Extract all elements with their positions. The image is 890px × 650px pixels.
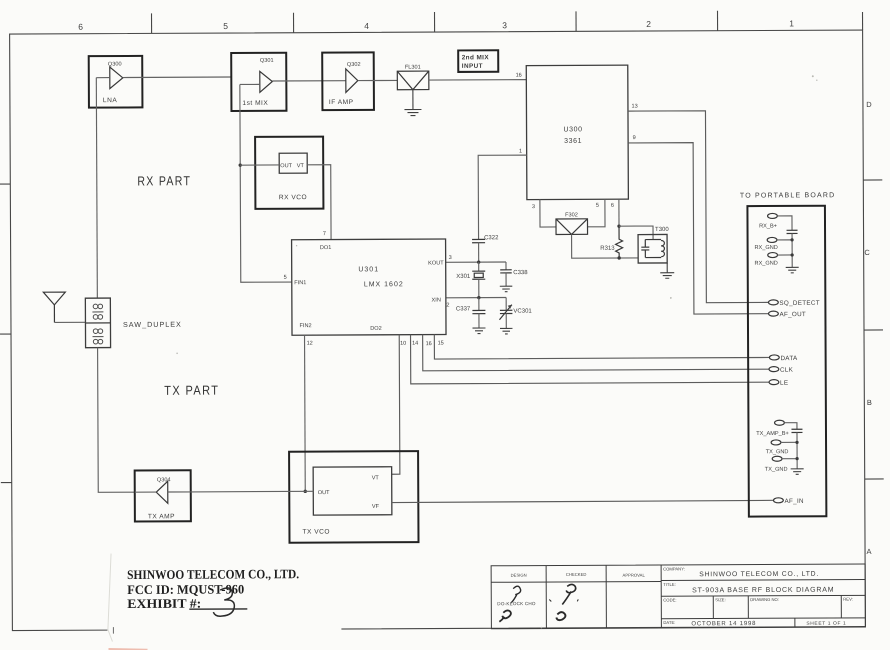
- pin SQ_DETECT: [768, 300, 819, 307]
- svg-text:DATA: DATA: [780, 355, 798, 362]
- svg-text:VT: VT: [297, 163, 305, 169]
- pin 12 wire U301 FIN2 down to TX VCO OUT node: [303, 335, 314, 493]
- variable capacitor VC301: [499, 297, 532, 328]
- svg-text:OUT: OUT: [280, 163, 292, 169]
- svg-text:DATE:: DATE:: [663, 620, 675, 625]
- svg-text:DO2: DO2: [370, 326, 382, 332]
- svg-text:15: 15: [438, 341, 444, 347]
- svg-text:R313: R313: [600, 246, 615, 252]
- svg-text:16: 16: [516, 73, 522, 79]
- svg-text:6: 6: [78, 22, 83, 32]
- svg-text:Q301: Q301: [260, 58, 274, 64]
- small pink scan mark: [108, 649, 147, 650]
- svg-text:5: 5: [284, 275, 287, 281]
- pin 16 wire U301 to CLK: [423, 333, 769, 371]
- svg-text:9: 9: [633, 135, 636, 141]
- wire IF AMP output to FL301: [358, 79, 397, 81]
- svg-text:AF_IN: AF_IN: [784, 498, 804, 505]
- svg-text:TX PART: TX PART: [164, 383, 219, 398]
- svg-text:VT: VT: [372, 475, 380, 481]
- svg-text:IF AMP: IF AMP: [329, 99, 354, 106]
- svg-text:1: 1: [789, 18, 794, 28]
- filter SAW_DUPLEX: [85, 298, 110, 348]
- svg-text:C338: C338: [513, 270, 528, 276]
- svg-text:B: B: [867, 398, 872, 407]
- pin TX_GND: [766, 440, 799, 455]
- svg-text:4: 4: [364, 21, 369, 31]
- scan speckles: [175, 75, 820, 630]
- wire TX VCO OUT to TX AMP: [191, 490, 313, 493]
- svg-text:APPROVAL: APPROVAL: [623, 573, 646, 578]
- svg-text:CLK: CLK: [780, 367, 794, 374]
- svg-text:TITLE:: TITLE:: [663, 582, 676, 587]
- wire U300 pin 3 to F302: [532, 199, 556, 227]
- svg-text:3: 3: [449, 255, 452, 261]
- svg-text:SHINWOO TELECOM CO., LTD.: SHINWOO TELECOM CO., LTD.: [699, 571, 819, 579]
- filter F302: [556, 212, 588, 234]
- amplifier Q300 LNA: [89, 56, 143, 108]
- svg-text:13: 13: [631, 104, 637, 110]
- wire antenna to duplexer: [54, 321, 85, 323]
- svg-text:2: 2: [446, 302, 449, 308]
- svg-text:5: 5: [596, 203, 599, 209]
- svg-text:SIZE:: SIZE:: [715, 597, 726, 602]
- signature DO-KEOCK CHO: [497, 586, 536, 622]
- svg-text:DRAWING NO:: DRAWING NO:: [750, 597, 779, 602]
- resonator T300: [638, 227, 670, 263]
- svg-text:TX_GND: TX_GND: [766, 449, 789, 455]
- svg-text:XIN: XIN: [432, 298, 441, 304]
- svg-text:D: D: [866, 100, 872, 109]
- wire FL301 to U300 pin 16: [429, 79, 526, 81]
- svg-text:DO-KEOCK CHO: DO-KEOCK CHO: [497, 601, 536, 606]
- svg-text:12: 12: [307, 341, 313, 347]
- wire 1st MIX LO input from RX VCO down to U301 FIN1 pin 5: [240, 84, 292, 282]
- wire TX VCO VF to AF_IN: [392, 500, 774, 502]
- svg-text:1: 1: [519, 149, 522, 155]
- svg-text:OUT: OUT: [318, 490, 330, 496]
- svg-text:COMPANY:: COMPANY:: [663, 566, 685, 571]
- capacitor at TX_AMP_B+: [791, 429, 802, 468]
- svg-text:FIN2: FIN2: [299, 323, 311, 329]
- frame left ticks: [0, 184, 12, 483]
- svg-text:FCC ID: MQUST-960: FCC ID: MQUST-960: [127, 581, 244, 597]
- svg-text:SHINWOO TELECOM CO., LTD.: SHINWOO TELECOM CO., LTD.: [127, 566, 299, 582]
- pin TX_GND: [765, 456, 799, 473]
- wire U300 pin 9 to AF_OUT: [628, 134, 769, 314]
- svg-text:RX_GND: RX_GND: [754, 245, 777, 251]
- pin 10 wire U301 to TX VCO VT: [391, 335, 407, 475]
- svg-text:X301: X301: [456, 274, 471, 280]
- FCC exhibit paste-over label: [107, 551, 341, 642]
- svg-text:CHECKED: CHECKED: [566, 572, 587, 577]
- node 2nd MIX INPUT callout: [458, 50, 498, 72]
- signature checked: [549, 584, 578, 620]
- wire U301 pin2 XIN line: [446, 296, 506, 309]
- pin RX_GND: [754, 237, 793, 251]
- svg-text:AF_OUT: AF_OUT: [779, 311, 806, 318]
- crystal X301: [456, 262, 485, 298]
- mixer Q301 1st MIX: [231, 53, 286, 111]
- svg-text:6: 6: [611, 203, 614, 209]
- ground below VC301: [500, 328, 513, 334]
- capacitor C337: [456, 298, 486, 328]
- svg-text:7: 7: [323, 231, 326, 237]
- svg-text:16: 16: [426, 341, 432, 347]
- amplifier Q302 IF AMP: [322, 52, 374, 110]
- pin RX_B+: [759, 213, 792, 230]
- svg-text:RX_B+: RX_B+: [759, 223, 777, 229]
- svg-text:DO1: DO1: [320, 245, 332, 251]
- svg-text:DESIGN: DESIGN: [511, 573, 527, 578]
- svg-text:U300: U300: [563, 126, 582, 133]
- wire 1st MIX output to IF AMP: [272, 80, 345, 82]
- wire U300 pin 13 to SQ_DETECT: [628, 103, 769, 303]
- svg-text:VF: VF: [372, 504, 380, 510]
- oscillator TX VCO: [289, 451, 418, 543]
- node junction at RX VCO out: [239, 163, 242, 166]
- title block field labels: [663, 566, 853, 625]
- svg-text:1st MIX: 1st MIX: [242, 100, 268, 107]
- antenna: [43, 292, 65, 322]
- wire U300 pin 5 to F302: [587, 199, 605, 227]
- title block table: [491, 564, 865, 629]
- ground in RX pin group: [786, 267, 799, 273]
- pin AF_OUT: [769, 311, 807, 318]
- wire RX VCO OUT to mixer LO node: [240, 164, 279, 166]
- connector J300 TO PORTABLE BOARD: [740, 192, 837, 516]
- svg-text:Q304: Q304: [157, 477, 171, 483]
- svg-text:14: 14: [412, 341, 418, 347]
- svg-text:C: C: [864, 248, 870, 257]
- svg-text:3: 3: [532, 204, 535, 210]
- frame top ticks: [152, 11, 718, 34]
- ground below C338: [500, 286, 513, 292]
- svg-text:10: 10: [400, 341, 406, 347]
- svg-text:TX VCO: TX VCO: [302, 529, 330, 536]
- svg-text:TX_GND: TX_GND: [765, 467, 788, 473]
- svg-text:SQ_DETECT: SQ_DETECT: [779, 300, 820, 307]
- svg-text:F302: F302: [565, 212, 578, 218]
- capacitor C338: [500, 262, 528, 286]
- svg-text:TX_AMP_B+: TX_AMP_B+: [756, 431, 789, 437]
- svg-text:RX VCO: RX VCO: [279, 194, 307, 201]
- svg-text:3: 3: [502, 20, 507, 30]
- wire LNA output to 1st MIX: [123, 76, 231, 79]
- filter FL301: [397, 65, 429, 90]
- svg-text:5: 5: [223, 21, 228, 31]
- svg-text:2: 2: [646, 19, 651, 29]
- svg-text:2nd MIX: 2nd MIX: [462, 54, 490, 61]
- svg-text:REV:: REV:: [843, 597, 853, 602]
- ground below C337: [472, 328, 485, 334]
- wire U300 pin 6 down: [611, 199, 621, 228]
- svg-text:LNA: LNA: [103, 97, 117, 104]
- svg-text:LE: LE: [780, 380, 788, 387]
- wire F302 output to quad detector net: [572, 234, 639, 258]
- svg-text:KOUT: KOUT: [428, 261, 444, 267]
- op-amp U301 PLL LMX 1602: [292, 239, 446, 335]
- svg-text:SAW_DUPLEX: SAW_DUPLEX: [123, 320, 182, 329]
- svg-text:3361: 3361: [564, 138, 582, 145]
- wire duplexer down to TX AMP: [98, 347, 135, 492]
- pin 1 wire to C322: [478, 149, 527, 240]
- wire LNA input down to SAW duplexer: [96, 78, 97, 298]
- svg-text:Q302: Q302: [347, 62, 361, 68]
- ground below FL301: [404, 90, 421, 116]
- svg-text:RX PART: RX PART: [137, 173, 191, 188]
- pin 15 wire U301 to DATA: [434, 333, 769, 359]
- svg-text:U301: U301: [358, 266, 379, 273]
- svg-text:SHEET 1 OF 1: SHEET 1 OF 1: [806, 621, 846, 626]
- svg-text:A: A: [867, 547, 872, 556]
- svg-text:FL301: FL301: [405, 65, 421, 71]
- svg-text:RX_GND: RX_GND: [755, 261, 778, 267]
- frame row letters: [864, 100, 875, 556]
- svg-text:OCTOBER 14 1998: OCTOBER 14 1998: [691, 621, 756, 627]
- op-amp U300 IF IC 3361: [526, 65, 628, 199]
- pin 14 wire U301 to LE: [411, 333, 770, 384]
- ground below T300: [660, 263, 674, 278]
- ground in TX pin group: [791, 469, 804, 475]
- svg-text:INPUT: INPUT: [462, 63, 483, 70]
- frame right ticks: [863, 180, 883, 479]
- svg-text:ST-903A BASE RF BLOCK DIAGRAM: ST-903A BASE RF BLOCK DIAGRAM: [692, 587, 834, 595]
- frame zone numbers: [78, 18, 794, 32]
- amplifier Q304 TX AMP: [135, 470, 191, 521]
- pin DATA: [769, 355, 798, 362]
- resistor R313: [600, 226, 623, 260]
- oscillator RX VCO: [255, 137, 323, 209]
- svg-text:FIN1: FIN1: [294, 280, 306, 286]
- pin RX_GND: [754, 252, 793, 266]
- wire RX VCO VT from U301 pin 7: [307, 165, 331, 240]
- pin LE: [769, 380, 788, 387]
- svg-text:TX AMP: TX AMP: [148, 513, 175, 520]
- title block headers: [511, 572, 646, 579]
- svg-text:VC301: VC301: [513, 309, 532, 315]
- wire pin6 node to T300: [619, 226, 653, 240]
- wire U301 pin3 KOUT line: [446, 255, 506, 264]
- capacitor C322: [472, 235, 499, 262]
- pin CLK: [769, 367, 794, 374]
- capacitor at RX_B+: [787, 230, 798, 267]
- pin AF_IN: [773, 498, 804, 505]
- pin TX_AMP_B+: [756, 420, 797, 437]
- svg-text:TO PORTABLE BOARD: TO PORTABLE BOARD: [740, 192, 836, 199]
- svg-text:CODE:: CODE:: [663, 597, 676, 602]
- svg-text:C322: C322: [484, 235, 499, 241]
- svg-text:C337: C337: [456, 306, 471, 312]
- svg-text:T300: T300: [655, 227, 669, 233]
- svg-text:LMX 1602: LMX 1602: [364, 281, 404, 288]
